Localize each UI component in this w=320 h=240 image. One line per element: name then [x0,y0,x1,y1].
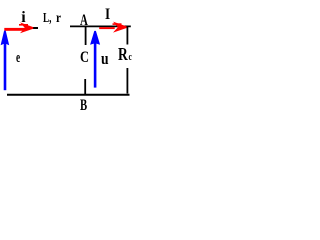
wire node A horizontal [70,25,131,27]
wire bottom node B [7,94,130,96]
label Rc [118,45,132,63]
label u [101,50,109,67]
arrow emf e (blue) [1,31,10,91]
label node A [80,13,88,29]
arrow current i (red) [4,22,33,33]
label i [21,10,25,26]
wire capacitor top lead [85,26,87,45]
wire resistor bottom lead [126,68,128,94]
label e [16,51,20,66]
wire capacitor bottom lead [84,79,86,95]
wire top dash after i arrow [33,27,39,29]
arrow current I (red) [99,22,126,33]
label node B [80,98,87,114]
label r (inductor label part 2) [56,12,61,26]
label I [105,7,110,23]
label C [80,50,89,66]
wire resistor top lead [126,26,128,45]
label L, (inductor label part 1) [43,12,51,26]
arrow voltage u (blue) [90,31,100,88]
